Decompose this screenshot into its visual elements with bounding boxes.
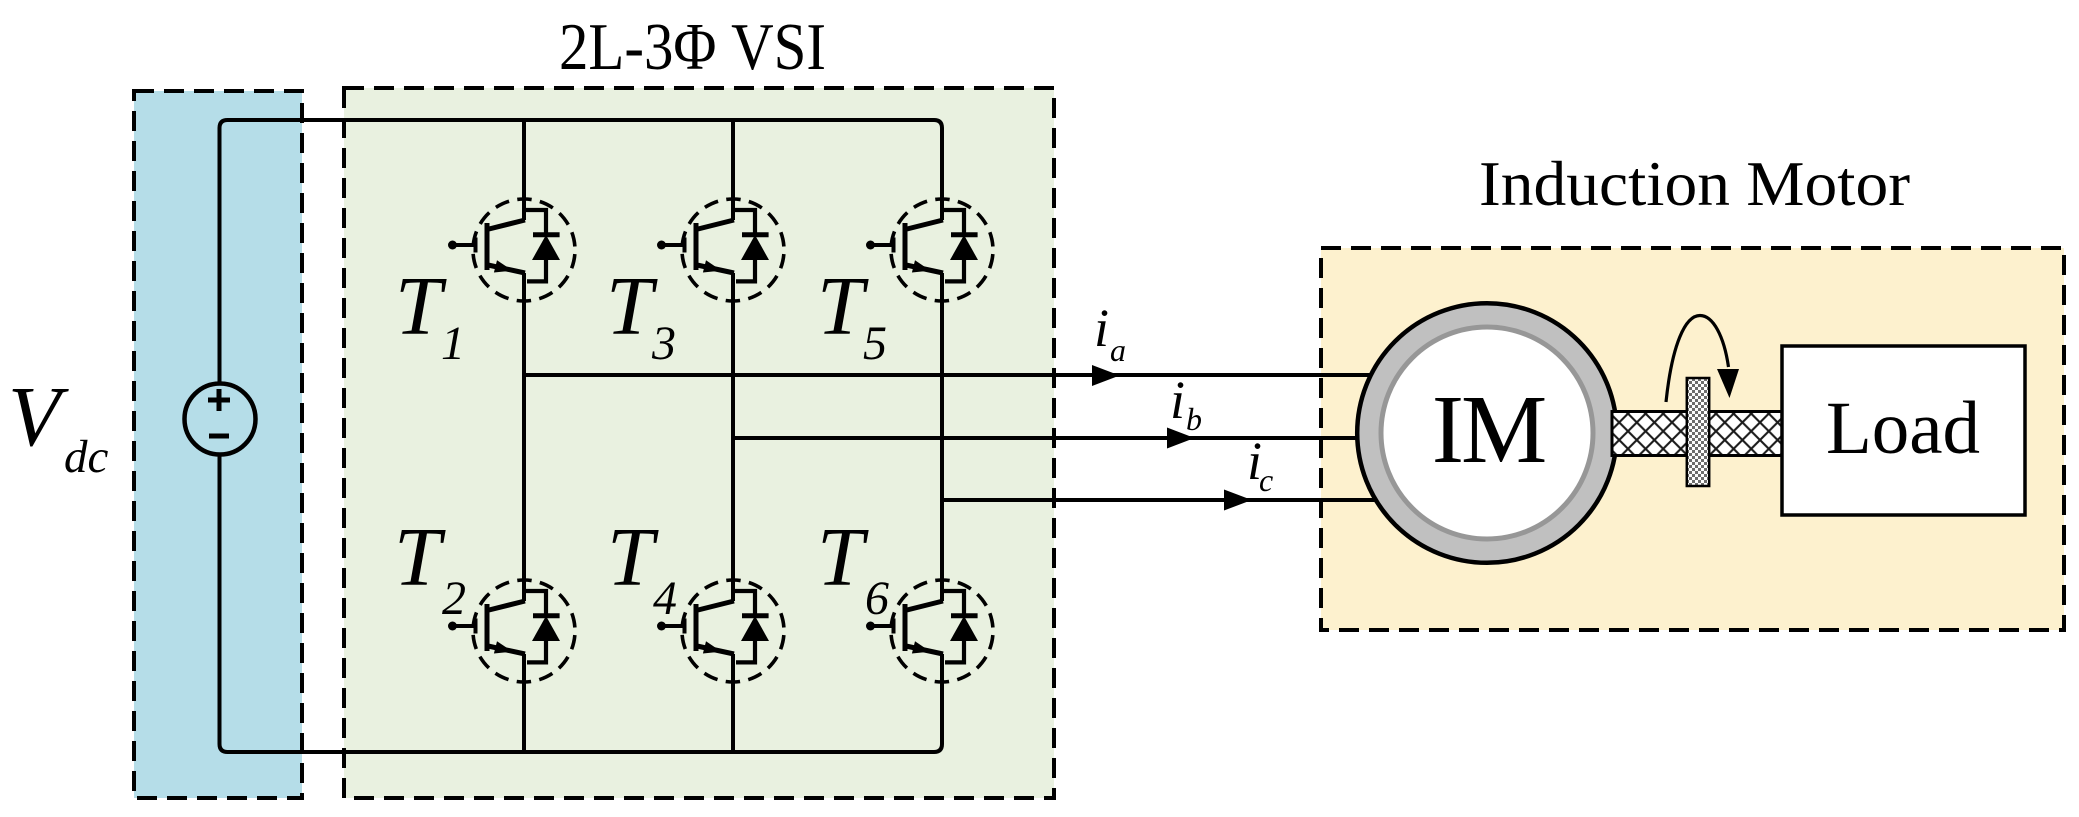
svg-text:5: 5 — [863, 317, 887, 370]
svg-text:IM: IM — [1432, 376, 1545, 483]
svg-text:3: 3 — [651, 317, 676, 370]
svg-text:T: T — [817, 260, 869, 353]
svg-text:a: a — [1110, 332, 1126, 368]
svg-text:1: 1 — [441, 317, 465, 370]
svg-text:Induction Motor: Induction Motor — [1479, 148, 1910, 219]
svg-text:T: T — [394, 511, 446, 604]
svg-text:Load: Load — [1826, 387, 1980, 470]
svg-text:T: T — [606, 260, 658, 353]
svg-text:c: c — [1259, 462, 1273, 498]
svg-text:i: i — [1170, 370, 1185, 430]
svg-text:6: 6 — [865, 572, 889, 625]
svg-text:4: 4 — [653, 572, 677, 625]
svg-text:T: T — [395, 260, 447, 353]
svg-text:T: T — [817, 511, 869, 604]
svg-text:V: V — [8, 368, 69, 464]
svg-text:T: T — [607, 511, 659, 604]
svg-text:i: i — [1094, 298, 1109, 358]
svg-text:dc: dc — [64, 431, 109, 483]
svg-text:2L-3Φ VSI: 2L-3Φ VSI — [559, 10, 826, 84]
svg-text:b: b — [1186, 401, 1202, 437]
svg-text:2: 2 — [442, 572, 466, 625]
